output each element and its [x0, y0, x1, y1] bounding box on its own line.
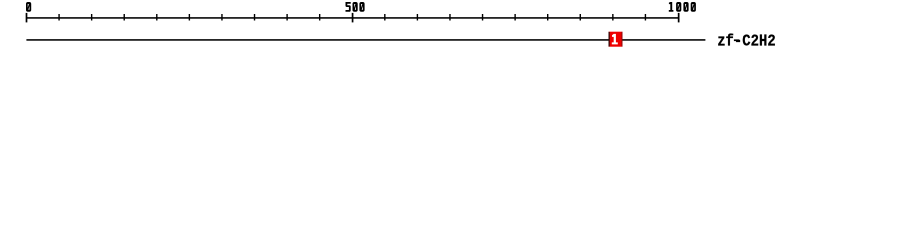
minor ticks (every 50 residues) — [58, 14, 646, 21]
domain box zf-C2H2 (red) — [609, 32, 623, 47]
major tick 0 — [26, 13, 28, 23]
major tick 500 — [352, 13, 354, 23]
ruler label 500 — [346, 2, 351, 12]
ruler label 1000 — [669, 2, 674, 12]
legend hyphen reinforcement — [734, 39, 739, 41]
domain box left border (dark) — [609, 32, 610, 47]
major tick 1000 — [678, 13, 680, 23]
svg-text:zf-C2H2: zf-C2H2 — [717, 32, 776, 51]
domain number 1 — [612, 34, 618, 45]
ruler axis line — [27, 17, 679, 19]
ruler label 0 — [26, 2, 31, 12]
sequence line — [26, 39, 705, 41]
domain box right border (dark red) — [622, 32, 623, 47]
